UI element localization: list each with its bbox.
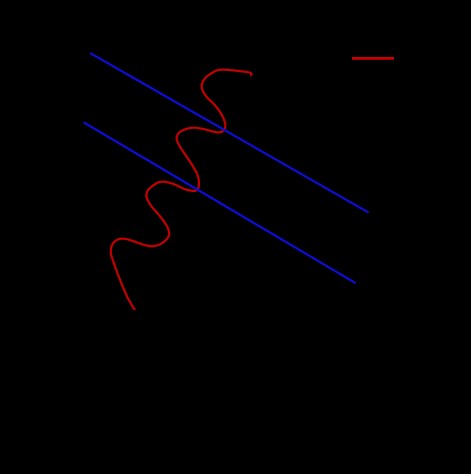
wavefront line 2 (84, 122, 356, 283)
wave ray (red sinusoid) (111, 70, 251, 310)
arrowhead (250, 72, 253, 78)
wavefront line 1 (90, 53, 368, 213)
legend line (352, 57, 394, 60)
